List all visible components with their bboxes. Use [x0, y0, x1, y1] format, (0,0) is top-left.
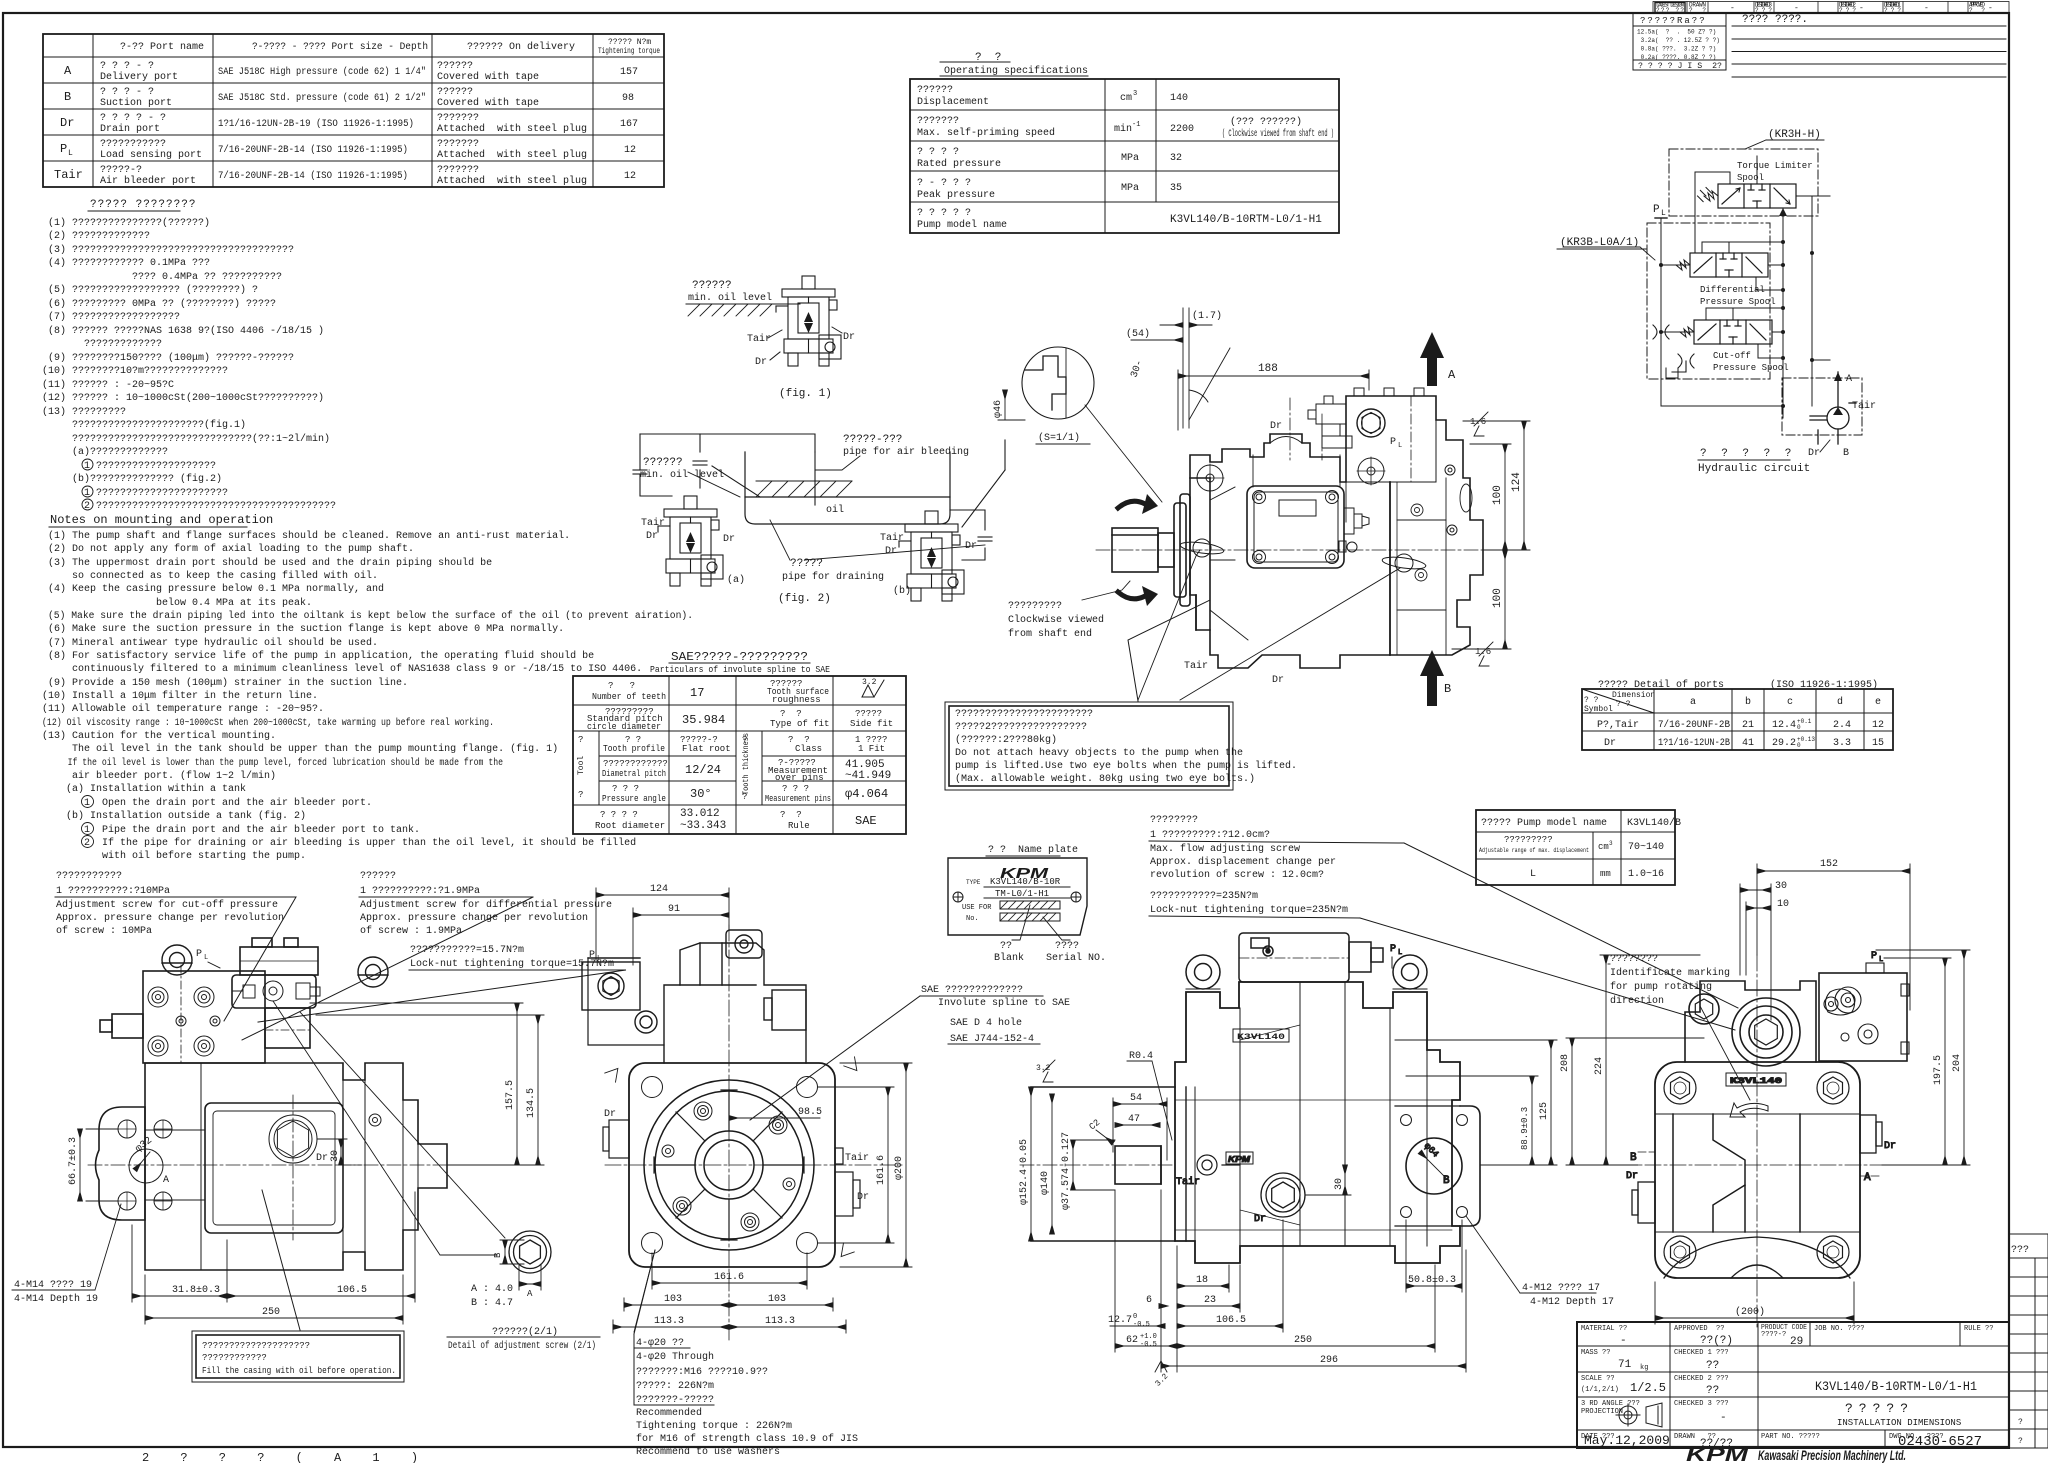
svg-text:????? N?m: ????? N?m — [608, 38, 651, 47]
svg-text:? ?: ? ? — [780, 709, 802, 719]
svg-text:31.8±0.3: 31.8±0.3 — [172, 1285, 220, 1296]
svg-text:Dr: Dr — [1270, 421, 1282, 432]
svg-text:K3VL140/B-10RTM-L0/1-H1: K3VL140/B-10RTM-L0/1-H1 — [1170, 214, 1322, 226]
svg-text:Recommended: Recommended — [636, 1407, 702, 1419]
centerline — [88, 1164, 480, 1166]
svg-text:124: 124 — [1511, 472, 1523, 492]
svg-text:(a) Installation within a tank: (a) Installation within a tank — [48, 783, 246, 795]
svg-text:(11) Allowable oil temperature: (11) Allowable oil temperature range : -… — [42, 703, 324, 715]
svg-text:88.9±0.3: 88.9±0.3 — [1520, 1107, 1530, 1150]
svg-text:Diametral pitch: Diametral pitch — [602, 769, 666, 779]
svg-text:with oil before starting the p: with oil before starting the pump. — [48, 850, 306, 862]
svg-text:?????2????????????????: ?????2???????????????? — [955, 722, 1087, 733]
svg-text:~41.949: ~41.949 — [845, 770, 891, 782]
svg-text:35: 35 — [1170, 183, 1182, 194]
svg-text:17: 17 — [690, 686, 704, 700]
top section — [1685, 981, 1816, 1066]
svg-text:103: 103 — [664, 1294, 682, 1305]
svg-text:-: - — [1859, 4, 1864, 13]
svg-text:3.2: 3.2 — [862, 678, 877, 687]
svg-text:(1) ???????????????(??????): (1) ???????????????(??????) — [48, 217, 210, 229]
svg-text:Pressure angle: Pressure angle — [602, 794, 666, 804]
svg-text:98: 98 — [622, 93, 634, 104]
dims rear view — [1560, 859, 1970, 1324]
161.6 vertical right — [887, 1087, 889, 1243]
svg-text:Adjustment screw for different: Adjustment screw for differential pressu… — [360, 899, 612, 911]
svg-text:(b)?????????????? (fig.2): (b)?????????????? (fig.2) — [48, 473, 222, 485]
pump case — [145, 1063, 447, 1270]
svg-text:(fig. 1): (fig. 1) — [779, 388, 832, 400]
main square — [1655, 1062, 1860, 1278]
svg-text:L: L — [1661, 209, 1666, 218]
svg-text:33.012: 33.012 — [680, 808, 720, 820]
svg-text:USE FOR: USE FOR — [962, 904, 992, 912]
svg-text:3.2a( ?? . 12.5Z ? ?): 3.2a( ?? . 12.5Z ? ?) — [1637, 37, 1720, 44]
svg-text:???????????=235N?m: ???????????=235N?m — [1150, 891, 1258, 902]
V1 connections — [1695, 156, 1830, 418]
svg-text:R0.4: R0.4 — [1129, 1051, 1153, 1062]
svg-text:CHECKED 1 ???: CHECKED 1 ??? — [1674, 1349, 1729, 1357]
svg-text:0.2a( ????. 0.8Z ? ?): 0.2a( ????. 0.8Z ? ?) — [1637, 54, 1716, 61]
svg-text:???? ????.: ???? ????. — [1742, 14, 1808, 26]
bottom flange arcs — [1664, 1237, 1850, 1278]
svg-text:-: - — [1720, 1412, 1727, 1424]
svg-text:(b): (b) — [893, 585, 911, 597]
svg-text:????????????: ???????????? — [603, 759, 668, 769]
svg-text:Adjustment screw for cut-off p: Adjustment screw for cut-off pressure — [56, 899, 278, 911]
B port flange — [1395, 1106, 1480, 1226]
svg-text:(9) Provide a 150 mesh (100μm): (9) Provide a 150 mesh (100μm) strainer … — [48, 677, 408, 689]
svg-text:A: A — [1864, 1172, 1871, 1184]
svg-text:2 ????????????????????????????: 2 ??????????????????????????????????????… — [48, 501, 336, 512]
svg-text:(b) Installation outside a tan: (b) Installation outside a tank (fig. 2) — [48, 810, 306, 822]
svg-text:1 Fit: 1 Fit — [858, 744, 885, 754]
svg-text:103: 103 — [768, 1294, 786, 1305]
svg-text:A: A — [64, 64, 72, 78]
svg-text:32: 32 — [1170, 153, 1182, 164]
svg-text:?: ? — [2018, 1437, 2023, 1446]
svg-text:? ? ? - ?: ? ? ? - ? — [100, 61, 154, 72]
svg-text:Measurement pins: Measurement pins — [765, 794, 831, 804]
svg-text:(6) Make sure the suction pres: (6) Make sure the suction pressure in th… — [48, 623, 564, 635]
svg-text:K3VL140/B-10RTM-L0/1-H1: K3VL140/B-10RTM-L0/1-H1 — [1815, 1379, 1977, 1394]
svg-text:1?1/16-12UN-2B: 1?1/16-12UN-2B — [1658, 737, 1730, 749]
svg-text:Dr: Dr — [1884, 1141, 1896, 1152]
leader to 4-phi20 note — [634, 1250, 655, 1332]
svg-text:P: P — [1653, 204, 1660, 216]
spline spokes — [654, 1090, 804, 1240]
svg-text:(1) The pump shaft and flange: (1) The pump shaft and flange surfaces s… — [48, 530, 570, 542]
svg-text:(2) Do not apply any form of a: (2) Do not apply any form of axial loadi… — [48, 543, 414, 555]
(200) bottom — [1655, 1317, 1854, 1319]
dims 124/100/100 right — [1452, 421, 1530, 649]
svg-text:Recommend to use washers: Recommend to use washers — [636, 1446, 780, 1458]
svg-text:(54): (54) — [1126, 328, 1150, 340]
svg-text:?????????: ????????? — [1008, 601, 1062, 612]
svg-text:May.12,2009: May.12,2009 — [1584, 1433, 1670, 1448]
hex plug on cover — [269, 1115, 317, 1163]
svg-text:Attached with steel plug: Attached with steel plug — [437, 149, 587, 161]
svg-text:L: L — [1398, 442, 1402, 450]
svg-text:188: 188 — [1258, 363, 1278, 375]
svg-text:Operating specifications: Operating specifications — [944, 65, 1088, 77]
svg-text:circle diameter: circle diameter — [587, 722, 661, 732]
161.6 horizontal bottom — [652, 1282, 807, 1284]
svg-text:SAE J518C Std. pressure (code: SAE J518C Std. pressure (code 61) 2 1/2" — [218, 92, 426, 104]
30 dim near hex plug — [340, 1139, 342, 1165]
svg-text:P: P — [196, 949, 202, 960]
svg-text:? ? ? ? ?: ? ? ? ? ? — [917, 208, 971, 219]
svg-text:?????????????: ????????????? — [48, 339, 162, 350]
svg-text:98.5: 98.5 — [798, 1107, 822, 1118]
svg-text:K3VL140: K3VL140 — [1237, 1033, 1285, 1042]
svg-text:? ? ? ? - ?: ? ? ? ? - ? — [100, 113, 166, 124]
svg-text:161.6: 161.6 — [714, 1272, 744, 1283]
svg-text:124: 124 — [650, 884, 668, 895]
svg-text:66.7±0.3: 66.7±0.3 — [68, 1137, 79, 1185]
svg-text:35.984: 35.984 — [682, 713, 725, 727]
svg-text:JOB NO. ????: JOB NO. ???? — [1814, 1325, 1864, 1333]
svg-text:MPa: MPa — [1121, 153, 1139, 164]
svg-text:Tair: Tair — [641, 517, 665, 529]
svg-text:Class: Class — [795, 744, 822, 754]
svg-text:140: 140 — [1170, 93, 1188, 104]
svg-text:Approx. displacement change pe: Approx. displacement change per — [1150, 856, 1336, 868]
svg-text:(2) ?????????????: (2) ????????????? — [48, 230, 150, 242]
svg-text:???????????????????????: ??????????????????????? — [955, 709, 1093, 720]
svg-text:Kawasaki Precision Machinery L: Kawasaki Precision Machinery Ltd. — [1758, 1447, 1906, 1463]
rotation arrows at shaft — [1118, 501, 1147, 599]
detail circle — [1022, 347, 1162, 502]
svg-text:?????: 226N?m: ?????: 226N?m — [636, 1381, 714, 1392]
svg-text:(5) Make sure the drain piping: (5) Make sure the drain piping led into … — [48, 610, 693, 622]
svg-text:Attached with steel plug: Attached with steel plug — [437, 175, 587, 187]
svg-text:(4) Keep the casing pressure b: (4) Keep the casing pressure below 0.1 M… — [48, 583, 384, 595]
valve V3 cut-off — [1680, 320, 1772, 344]
piping left (pump a) — [640, 434, 815, 452]
svg-text:(13) ?????????: (13) ????????? — [42, 406, 126, 418]
svg-text:of screw : 10MPa: of screw : 10MPa — [56, 925, 152, 937]
regulator right — [1819, 973, 1907, 1061]
svg-text:(6) ????????? 0MPa ?? (???????: (6) ????????? 0MPa ?? (????????) ????? — [48, 298, 276, 310]
svg-text:Symbol: Symbol — [1584, 705, 1613, 714]
svg-text:12.7: 12.7 — [1108, 1315, 1132, 1326]
svg-text:Hydraulic circuit: Hydraulic circuit — [1698, 463, 1810, 475]
svg-text:?: ? — [578, 790, 583, 800]
98.5 — [729, 1117, 820, 1119]
svg-text:41: 41 — [1742, 738, 1754, 749]
svg-text:Tair: Tair — [845, 1152, 869, 1164]
svg-text:?: ? — [2018, 1418, 2023, 1427]
svg-text:Approx. pressure change per re: Approx. pressure change per revolution — [56, 912, 284, 924]
svg-text:2.4: 2.4 — [1833, 720, 1851, 731]
svg-text:50.8±0.3: 50.8±0.3 — [1408, 1275, 1456, 1286]
svg-text:? ?: ? ? — [1616, 700, 1631, 709]
svg-text:??: ?? — [1706, 1360, 1719, 1372]
svg-text:Serial NO.: Serial NO. — [1046, 952, 1106, 964]
svg-text:? - ? ? ?: ? - ? ? ? — [917, 178, 971, 189]
svg-text:0: 0 — [1797, 724, 1801, 731]
svg-text:1 ????????????????????: 1 ???????????????????? — [48, 461, 216, 472]
svg-text:A: A — [527, 1289, 533, 1299]
svg-text:1?1/16-12UN-2B-19 (ISO 11926-1: 1?1/16-12UN-2B-19 (ISO 11926-1:1995) — [218, 118, 414, 130]
svg-text:A: A — [163, 1175, 169, 1186]
svg-text:? ? Name plate: ? ? Name plate — [988, 844, 1078, 856]
svg-text:min. oil level: min. oil level — [640, 469, 724, 481]
svg-text:1 Pipe the drain port and the: 1 Pipe the drain port and the air bleede… — [48, 824, 420, 836]
svg-text:Pressure Spool: Pressure Spool — [1713, 363, 1789, 373]
svg-text:??????: ?????? — [437, 61, 473, 72]
svg-text:K3VL140/B: K3VL140/B — [1627, 817, 1681, 829]
svg-text:Clockwise viewed: Clockwise viewed — [1008, 614, 1104, 626]
svg-text:PART NO. ?????: PART NO. ????? — [1761, 1433, 1820, 1441]
svg-text:P: P — [1390, 944, 1396, 955]
svg-text:(4) ???????????? 0.1MPa ???: (4) ???????????? 0.1MPa ??? — [48, 257, 210, 269]
K3VL140 label + rotation arrow — [1726, 1073, 1786, 1086]
svg-text:Approx. pressure change per re: Approx. pressure change per revolution — [360, 912, 588, 924]
fig2 pumps — [658, 496, 723, 586]
svg-text:(??? ??????): (??? ??????) — [1230, 116, 1302, 128]
throttles — [1653, 325, 1694, 378]
svg-text:152: 152 — [1820, 859, 1838, 870]
svg-text:(12) ?????? : 10~1000cSt(200~1: (12) ?????? : 10~1000cSt(200~1000cSt????… — [42, 392, 324, 404]
svg-text:?????: ????? — [1845, 1401, 1914, 1416]
svg-text:(200): (200) — [1735, 1306, 1765, 1318]
svg-text:Tair: Tair — [880, 532, 904, 544]
svg-text:12: 12 — [1872, 720, 1884, 731]
junction dots — [1659, 240, 1814, 408]
svg-text:TYPE: TYPE — [966, 879, 981, 886]
svg-text:0: 0 — [1797, 742, 1801, 749]
svg-text:???: ??? — [1839, 7, 1856, 14]
svg-text:B : 4.7: B : 4.7 — [471, 1298, 513, 1309]
svg-text:(KR3H-H): (KR3H-H) — [1768, 129, 1821, 141]
svg-text:so connected as to keep the ca: so connected as to keep the casing fille… — [48, 570, 378, 582]
svg-text:? ? ? ? J I S 2?: ? ? ? ? J I S 2? — [1638, 62, 1722, 71]
svg-text:(S=1/1): (S=1/1) — [1038, 432, 1080, 444]
svg-text:INSTALLATION DIMENSIONS: INSTALLATION DIMENSIONS — [1837, 1418, 1961, 1428]
svg-text:B: B — [1443, 1175, 1450, 1187]
hex detail — [509, 1231, 551, 1273]
svg-text:c: c — [1787, 697, 1793, 708]
svg-text:SAE ?????????????: SAE ????????????? — [921, 985, 1023, 996]
svg-text:???: ??? — [1755, 7, 1772, 14]
svg-text:4-M14 Depth 19: 4-M14 Depth 19 — [14, 1293, 98, 1305]
svg-text:-: - — [1924, 4, 1929, 13]
svg-text:113.3: 113.3 — [654, 1316, 684, 1327]
svg-text:(10) Install a 10μm filter in: (10) Install a 10μm filter in the return… — [42, 690, 318, 702]
svg-text:3.3: 3.3 — [1833, 738, 1851, 749]
svg-text:SAE D 4 hole: SAE D 4 hole — [950, 1017, 1022, 1029]
svg-text:? ? ?: ? ? ? — [612, 784, 639, 794]
svg-text:over pins: over pins — [775, 773, 824, 783]
svg-text:(a): (a) — [727, 574, 745, 586]
svg-text:Flat root: Flat root — [682, 744, 731, 754]
pump — [1810, 372, 1856, 444]
svg-text:Tair: Tair — [747, 333, 771, 345]
svg-text:Attached with steel plug: Attached with steel plug — [437, 123, 587, 135]
svg-text:Blank: Blank — [994, 952, 1024, 964]
svg-text:????????????: ???????????? — [202, 1353, 267, 1363]
svg-text:min. oil level: min. oil level — [688, 292, 772, 304]
svg-text:(12) Oil viscosity range : 10~: (12) Oil viscosity range : 10~1000cSt wh… — [42, 717, 494, 729]
big pilot circles — [644, 1080, 814, 1250]
svg-text:54: 54 — [1130, 1093, 1142, 1104]
body internal lines — [1210, 455, 1472, 655]
svg-text:1.6: 1.6 — [1470, 417, 1486, 427]
svg-text:revolution of screw : 12.0cm?: revolution of screw : 12.0cm? — [1150, 869, 1324, 881]
svg-text:????????: ???????? — [1150, 815, 1198, 826]
lower trapezoid body — [1655, 1114, 1860, 1232]
svg-text:?????-?: ?????-? — [100, 165, 142, 176]
svg-text:for M16 of strength class 10.9: for M16 of strength class 10.9 of JIS — [636, 1433, 858, 1445]
svg-text:Dr: Dr — [755, 357, 767, 368]
svg-text:7/16-20UNF-2B-14 (ISO 11926-1:: 7/16-20UNF-2B-14 (ISO 11926-1:1995) — [218, 144, 408, 156]
φ200 vertical — [905, 1063, 907, 1267]
regulator block — [100, 938, 318, 1063]
svg-text:106.5: 106.5 — [337, 1285, 367, 1296]
svg-text:Pump model name: Pump model name — [917, 219, 1007, 231]
svg-text:Dr: Dr — [1626, 1171, 1638, 1182]
svg-text:30: 30 — [330, 1150, 341, 1162]
svg-text:250: 250 — [1294, 1335, 1312, 1346]
finish check marks — [605, 1064, 623, 1082]
svg-text:B: B — [1444, 682, 1451, 696]
svg-text:????????????????????: ???????????????????? — [202, 1341, 310, 1351]
30 dim — [1305, 1165, 1351, 1195]
svg-text:30°: 30° — [690, 787, 712, 801]
svg-text:Rated pressure: Rated pressure — [917, 158, 1001, 170]
svg-text:-: - — [1620, 1335, 1627, 1347]
svg-text:02430-6527: 02430-6527 — [1898, 1434, 1982, 1450]
svg-text:Differential: Differential — [1700, 285, 1765, 295]
svg-text:197.5: 197.5 — [1933, 1055, 1944, 1085]
224 / 208 left — [1605, 955, 1607, 1165]
svg-text:P: P — [589, 950, 595, 961]
svg-text:The oil level in the tank shou: The oil level in the tank should be uppe… — [48, 743, 558, 755]
svg-text:φ37.574-0.127: φ37.574-0.127 — [1061, 1132, 1072, 1210]
103 103 — [624, 1304, 729, 1306]
113.3 113.3 — [613, 1326, 729, 1328]
157.5 / 134.5 — [516, 1003, 518, 1165]
svg-text:P: P — [1390, 437, 1396, 448]
svg-text:Spool: Spool — [1737, 173, 1764, 183]
svg-text:???????: ??????? — [437, 139, 479, 150]
svg-text:3: 3 — [1133, 90, 1137, 98]
svg-text:???: ??? — [1884, 7, 1901, 14]
svg-text:Number of teeth: Number of teeth — [592, 692, 666, 702]
body behind flange (top) — [582, 930, 806, 1063]
eye bolts — [162, 945, 388, 987]
svg-text:62: 62 — [1126, 1335, 1138, 1346]
svg-text:Tooth profile: Tooth profile — [603, 744, 665, 754]
right dims — [1395, 1040, 1614, 1308]
svg-text:(10) ????????10?m?????????????: (10) ????????10?m?????????????? — [42, 365, 228, 377]
svg-text:?????Ra??: ?????Ra?? — [1640, 16, 1707, 26]
svg-text:??: ?? — [1706, 1385, 1719, 1397]
svg-text:MASS ??: MASS ?? — [1581, 1349, 1610, 1357]
svg-text:(fig. 2): (fig. 2) — [778, 593, 831, 605]
svg-text:29: 29 — [1790, 1336, 1803, 1348]
svg-text:(8) ?????? ?????NAS 1638 9?(IS: (8) ?????? ?????NAS 1638 9?(ISO 4406 -/1… — [48, 325, 324, 337]
svg-text:113.3: 113.3 — [765, 1316, 795, 1327]
6 bolt heads — [662, 1102, 795, 1231]
hex bolts corners — [1664, 1072, 1849, 1268]
svg-text:min: min — [1114, 123, 1132, 135]
small port right — [369, 1114, 381, 1126]
svg-text:pipe for air bleeding: pipe for air bleeding — [843, 446, 969, 458]
Dr ports left/right — [1632, 1115, 1882, 1223]
svg-text:???????????: ??????????? — [100, 139, 166, 150]
svg-text:air bleeder port. (flow 1~2 l/: air bleeder port. (flow 1~2 l/min) — [48, 770, 276, 782]
svg-text:296: 296 — [1320, 1355, 1338, 1366]
svg-text:B: B — [64, 90, 71, 104]
svg-text:??????: ?????? — [692, 280, 732, 292]
svg-text:134.5: 134.5 — [526, 1088, 537, 1118]
svg-text:Particulars of involute spline: Particulars of involute spline to SAE — [650, 665, 830, 675]
bottom dims — [1108, 1190, 1466, 1389]
svg-text:???????????: ??????????? — [56, 871, 122, 882]
bottom dims — [132, 1295, 227, 1297]
svg-text:???? 0.4MPa ?? ??????????: ???? 0.4MPa ?? ?????????? — [48, 272, 282, 283]
svg-text:1 ??????????:?10MPa: 1 ??????????:?10MPa — [56, 886, 170, 897]
svg-text:Dr: Dr — [885, 546, 897, 557]
svg-text:(??????:2???80kg): (??????:2???80kg) — [955, 734, 1057, 746]
svg-text:106.5: 106.5 — [1216, 1315, 1246, 1326]
svg-text:Tair: Tair — [1176, 1176, 1200, 1188]
svg-text:P: P — [60, 142, 67, 156]
svg-text:(1.7): (1.7) — [1192, 310, 1222, 322]
svg-text:SCALE ??: SCALE ?? — [1581, 1375, 1615, 1383]
svg-text:161.6: 161.6 — [876, 1155, 887, 1185]
svg-text:Dr: Dr — [316, 1153, 328, 1164]
svg-text:224: 224 — [1594, 1057, 1605, 1075]
Tair / Dr pins — [1180, 539, 1427, 572]
svg-text:(a)?????????????: (a)????????????? — [48, 446, 168, 458]
152 / 30 / 10 top — [1757, 870, 1910, 872]
svg-text:Torque Limiter: Torque Limiter — [1737, 161, 1813, 171]
svg-text:????-?: ????-? — [1761, 1331, 1786, 1339]
svg-text:Dr: Dr — [1272, 675, 1284, 686]
svg-text:~33.343: ~33.343 — [680, 820, 726, 832]
svg-text:250: 250 — [262, 1307, 280, 1318]
svg-text:4-φ20 Through: 4-φ20 Through — [636, 1351, 714, 1363]
svg-text:Displacement: Displacement — [917, 96, 989, 108]
svg-text:mm: mm — [1600, 869, 1611, 879]
svg-text:φ46: φ46 — [993, 400, 1004, 418]
svg-text:70~140: 70~140 — [1628, 842, 1664, 853]
svg-text:P?,Tair: P?,Tair — [1597, 719, 1639, 731]
section arrows A & B — [1420, 332, 1444, 706]
svg-text:100: 100 — [1492, 588, 1504, 608]
svg-text:+1.0: +1.0 — [1140, 1333, 1157, 1341]
svg-text:a: a — [1690, 697, 1696, 708]
svg-text:0.8a( ???. 3.2Z ? ?): 0.8a( ???. 3.2Z ? ?) — [1637, 46, 1716, 53]
small texts of strips — [1637, 2, 2029, 1447]
history lines — [1732, 26, 2006, 77]
svg-text:1 ??????????:?1.9MPa: 1 ??????????:?1.9MPa — [360, 886, 480, 897]
svg-text:(Max. allowable weight. 80kg u: (Max. allowable weight. 80kg using two e… — [955, 773, 1255, 785]
shaft — [1112, 528, 1174, 572]
svg-text:????? Pump model name: ????? Pump model name — [1481, 817, 1607, 829]
svg-text:cm: cm — [1598, 842, 1609, 852]
svg-text:(1/1,2/1): (1/1,2/1) — [1581, 1386, 1619, 1394]
svg-text:Covered with tape: Covered with tape — [437, 97, 539, 109]
svg-text:3: 3 — [1609, 840, 1613, 847]
svg-text:A: A — [1448, 368, 1456, 382]
svg-text:Dr: Dr — [1808, 448, 1820, 459]
shaft flange disc — [1174, 494, 1190, 606]
